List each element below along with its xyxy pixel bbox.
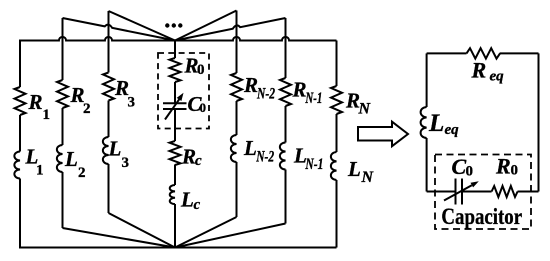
svg-text:0: 0 <box>466 164 474 180</box>
svg-text:L: L <box>64 147 78 171</box>
svg-text:2: 2 <box>83 101 91 117</box>
svg-text:N: N <box>358 100 372 117</box>
svg-text:N-1: N-1 <box>305 156 324 173</box>
svg-text:3: 3 <box>128 95 136 111</box>
svg-text:R: R <box>28 90 43 114</box>
svg-text:c: c <box>194 197 201 213</box>
svg-text:0: 0 <box>197 62 205 78</box>
svg-text:1: 1 <box>36 163 44 179</box>
svg-text:c: c <box>195 153 202 169</box>
svg-text:1: 1 <box>43 107 51 123</box>
svg-text:R: R <box>181 145 196 169</box>
svg-text:L: L <box>428 110 444 137</box>
svg-text:0: 0 <box>511 163 519 179</box>
svg-text:R: R <box>292 78 307 102</box>
svg-text:2: 2 <box>78 165 86 181</box>
svg-text:R: R <box>471 58 487 83</box>
svg-text:N-2: N-2 <box>255 149 274 166</box>
svg-text:L: L <box>108 136 122 160</box>
svg-text:R: R <box>495 154 511 179</box>
svg-text:L: L <box>180 188 194 212</box>
svg-text:N-1: N-1 <box>305 90 323 107</box>
svg-text:R: R <box>243 73 258 97</box>
svg-text:Capacitor: Capacitor <box>441 204 522 230</box>
svg-text:3: 3 <box>122 155 130 171</box>
svg-text:N-2: N-2 <box>256 86 275 103</box>
svg-text:C: C <box>452 154 467 179</box>
svg-text:0: 0 <box>200 100 207 115</box>
svg-text:L: L <box>243 136 257 160</box>
svg-text:eq: eq <box>445 122 460 138</box>
svg-text:L: L <box>347 157 361 181</box>
svg-text:eq: eq <box>490 69 505 85</box>
svg-text:N: N <box>361 169 375 186</box>
